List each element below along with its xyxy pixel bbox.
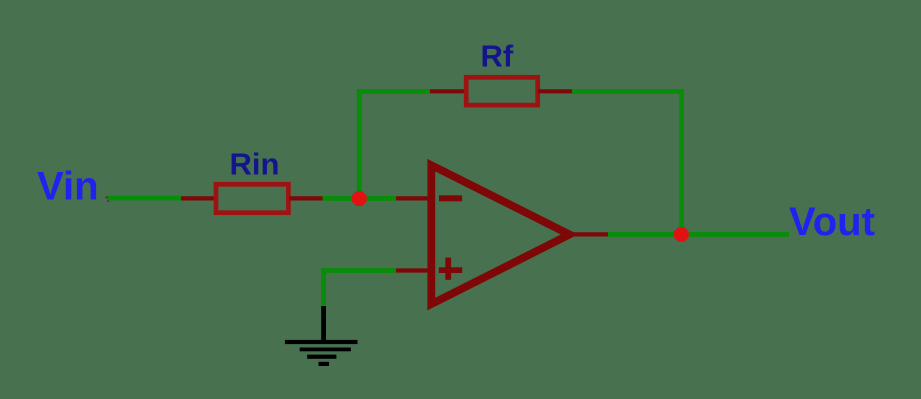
wire junction riser to feedback — [357, 89, 362, 198]
wire ground branch vertical green — [321, 268, 326, 306]
svg-text:Rin: Rin — [230, 146, 280, 181]
op-amp U1 inverting input lead — [396, 196, 430, 200]
wire Rf to output riser — [572, 89, 684, 94]
resistor R1 (Rin) left lead — [181, 196, 216, 200]
op-amp U1 plus symbol horizontal — [439, 267, 462, 273]
svg-text:Vout: Vout — [789, 200, 875, 244]
op-amp U1 triangle body — [431, 165, 569, 304]
ground plate 2 — [300, 348, 351, 352]
resistor R2 (Rf) left lead — [430, 89, 466, 93]
wire start artifact dot — [107, 200, 109, 202]
wire Vin to Rin — [107, 196, 181, 201]
node A junction dot (inverting input node) — [352, 191, 367, 206]
op-amp U1 plus symbol vertical — [445, 258, 451, 280]
resistor R1 (Rin) right lead — [289, 196, 323, 200]
wire ground stem black — [321, 306, 326, 341]
ground plate 4 — [319, 362, 330, 366]
resistor R1 (Rin) body — [216, 184, 288, 212]
resistor R2 (Rf) right lead — [538, 89, 572, 93]
resistor R2 (Rf) body — [466, 77, 538, 105]
svg-text:Rf: Rf — [481, 38, 514, 73]
node B junction dot (output node) — [674, 227, 689, 242]
ground plate 3 — [307, 355, 336, 359]
ground plate 1 — [285, 340, 358, 344]
wire top horizontal to Rf — [357, 89, 430, 94]
svg-text:Vin: Vin — [37, 164, 99, 208]
wire ground branch horizontal — [321, 268, 396, 273]
wire output riser vertical — [679, 89, 684, 234]
wire output to Vout — [608, 232, 789, 237]
wire Rin to op-amp inverting input — [323, 196, 397, 201]
op-amp U1 output lead — [571, 232, 609, 236]
op-amp U1 minus symbol — [439, 195, 462, 201]
op-amp U1 non-inverting input lead — [396, 268, 430, 272]
wire endpoint marker at Vin — [106, 197, 108, 199]
